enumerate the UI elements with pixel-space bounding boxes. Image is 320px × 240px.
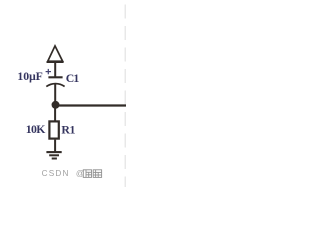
- wire: power to capacitor C1: [54, 62, 56, 77]
- power port VCC triangle: [48, 46, 63, 61]
- svg-text:C1: C1: [66, 71, 80, 85]
- ground bar 2: [49, 154, 59, 156]
- svg-text:CSDN: CSDN: [42, 169, 70, 178]
- watermark glyph 2 (drawn): [93, 170, 101, 178]
- svg-text:10K: 10K: [26, 122, 47, 136]
- junction dot: [52, 101, 60, 109]
- wire: resistor to ground: [54, 140, 56, 152]
- power port base bar: [47, 61, 64, 63]
- capacitor C1 curved bottom plate: [46, 84, 64, 87]
- page background: [0, 0, 126, 187]
- wire: capacitor to junction node: [54, 84, 56, 103]
- plus polarity mark of C1: [46, 69, 51, 74]
- faint page border line (right edge): [124, 0, 126, 187]
- svg-text:R1: R1: [61, 122, 75, 136]
- watermark glyph 1 (drawn): [83, 170, 91, 178]
- ground bar 1: [46, 151, 61, 153]
- capacitor C1 top plate: [48, 76, 62, 78]
- svg-text:10µF: 10µF: [17, 69, 42, 83]
- ground bar 3: [52, 158, 57, 160]
- wire: junction down to resistor R1: [54, 105, 56, 121]
- wire: junction to right edge: [56, 104, 127, 106]
- resistor R1 body: [49, 121, 58, 138]
